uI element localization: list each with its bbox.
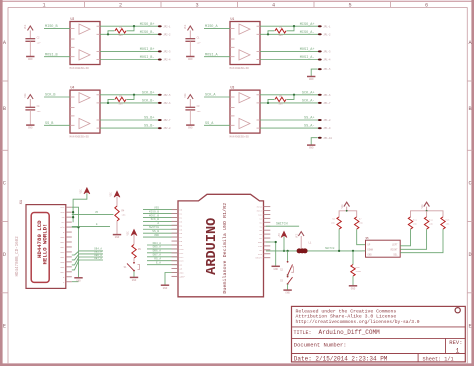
title row bbox=[294, 329, 381, 336]
wire net MISO_A bbox=[204, 25, 230, 29]
svg-text:SCK_A-: SCK_A- bbox=[302, 100, 315, 104]
wire net SWITCH bbox=[143, 226, 178, 229]
pin JP2-6 bbox=[158, 102, 171, 105]
svg-text:SCK: SCK bbox=[258, 213, 263, 216]
svg-text:SS_B: SS_B bbox=[45, 122, 53, 126]
svg-text:GND: GND bbox=[285, 292, 290, 295]
wire net MISO_B bbox=[143, 210, 178, 213]
svg-text:DB7_A: DB7_A bbox=[153, 254, 162, 257]
resistor R7 10K bbox=[355, 217, 366, 245]
wire GND bus bbox=[72, 207, 79, 277]
wire net MOSI_B+ bbox=[100, 48, 160, 52]
svg-text:MISO_A+: MISO_A+ bbox=[300, 23, 315, 27]
svg-text:VCC: VCC bbox=[341, 204, 344, 209]
wire net MISO_B- bbox=[100, 31, 160, 35]
CC logo bbox=[455, 308, 460, 313]
op-amp U2 (MAX490ESD+SD) bbox=[70, 17, 101, 70]
svg-text:MAX490ESD+SD: MAX490ESD+SD bbox=[70, 136, 90, 139]
svg-text:GND: GND bbox=[351, 287, 356, 290]
capacitor C2 bbox=[25, 37, 41, 57]
pin JP2-2 bbox=[158, 33, 171, 36]
wire net VSS bbox=[143, 206, 178, 209]
svg-text:SS_B+: SS_B+ bbox=[144, 117, 155, 121]
op-amp U3 (MAX490ESD+SD) bbox=[230, 86, 261, 139]
node junction bbox=[352, 250, 354, 252]
wire net DB7_A bbox=[147, 254, 178, 257]
svg-text:MOSI: MOSI bbox=[257, 210, 263, 213]
svg-text:DOWN: DOWN bbox=[368, 249, 374, 252]
svg-text:VDD: VDD bbox=[154, 234, 159, 237]
resistor R1 100 bbox=[268, 26, 294, 37]
svg-text:10K: 10K bbox=[429, 223, 434, 226]
svg-text:SS_A-: SS_A- bbox=[304, 125, 315, 129]
svg-text:GND: GND bbox=[28, 127, 33, 130]
svg-text:DB5: DB5 bbox=[60, 261, 65, 264]
resistor R11 10K bbox=[400, 217, 417, 246]
wire net SS_A bbox=[204, 122, 230, 126]
svg-text:MOSI_B+: MOSI_B+ bbox=[140, 48, 155, 52]
svg-text:GND: GND bbox=[28, 58, 33, 61]
wire (GND pin) bbox=[311, 69, 317, 76]
wire VCC to LCD bbox=[73, 193, 87, 222]
svg-text:DB3: DB3 bbox=[60, 251, 65, 254]
wire net SCK_B+ bbox=[100, 91, 160, 95]
svg-text:DB2: DB2 bbox=[60, 246, 65, 249]
svg-text:SS_B: SS_B bbox=[152, 230, 159, 233]
svg-text:SWITCH: SWITCH bbox=[149, 226, 159, 229]
power VCC (nav right) bbox=[421, 202, 430, 211]
svg-text:Released under the Creative Co: Released under the Creative Commons bbox=[296, 308, 397, 314]
wire net SCK_B bbox=[44, 94, 70, 98]
svg-text:B: B bbox=[468, 106, 471, 112]
svg-text:1uF: 1uF bbox=[197, 41, 202, 44]
svg-text:JP1-5: JP1-5 bbox=[323, 68, 331, 71]
ground bbox=[113, 235, 121, 240]
pin JP1-9 bbox=[318, 127, 331, 130]
wire net MOSI_B bbox=[44, 53, 70, 57]
svg-text:10K: 10K bbox=[413, 223, 418, 226]
node junction bbox=[267, 102, 269, 104]
node junction bbox=[283, 250, 285, 252]
power VCC (nav left) bbox=[341, 202, 350, 211]
svg-text:3V3: 3V3 bbox=[258, 253, 263, 256]
wire net SWITCH bbox=[266, 221, 299, 226]
wire net MISO_A+ bbox=[260, 23, 320, 27]
inductor L1 ferrite bead bbox=[297, 242, 312, 254]
resistor R6 10K bbox=[331, 217, 341, 251]
resistor R2 100 bbox=[108, 26, 134, 37]
svg-text:VDD: VDD bbox=[60, 211, 65, 214]
svg-text:U3: U3 bbox=[231, 86, 235, 90]
svg-text:GND: GND bbox=[163, 287, 168, 290]
svg-text:SWITCH: SWITCH bbox=[325, 247, 335, 250]
wire net E_A bbox=[147, 261, 178, 264]
wire net MOSI_B bbox=[143, 214, 178, 217]
wire to switch S2 bbox=[287, 251, 289, 261]
ground bbox=[186, 57, 194, 62]
svg-text:JP1-10: JP1-10 bbox=[323, 137, 332, 140]
power VCC (S1 chain) bbox=[127, 229, 138, 244]
svg-text:GND: GND bbox=[368, 254, 373, 257]
svg-text:DB0: DB0 bbox=[60, 236, 65, 239]
svg-text:GND: GND bbox=[273, 268, 278, 271]
svg-text:SCK_A: SCK_A bbox=[205, 94, 216, 98]
pin JP2-1 bbox=[158, 25, 171, 28]
svg-text:1uF: 1uF bbox=[37, 110, 42, 113]
wire net VO bbox=[72, 211, 114, 214]
svg-text:TITLE:: TITLE: bbox=[294, 330, 312, 336]
svg-text:HELLO WORLD!: HELLO WORLD! bbox=[41, 224, 48, 265]
power VCC (U2 supply) bbox=[24, 24, 33, 38]
svg-text:X1: X1 bbox=[20, 200, 24, 204]
wire net SS_B bbox=[44, 122, 70, 126]
svg-text:100: 100 bbox=[118, 34, 123, 37]
svg-text:AREF: AREF bbox=[180, 275, 186, 278]
op-amp U4 (MAX490ESD+SD) bbox=[70, 86, 101, 139]
wire S3 to ground bbox=[287, 284, 289, 290]
svg-text:MISO_B: MISO_B bbox=[45, 25, 58, 29]
svg-text:MISO_A: MISO_A bbox=[205, 25, 219, 29]
svg-text:DB1: DB1 bbox=[60, 241, 65, 244]
svg-text:B: B bbox=[3, 106, 6, 112]
pin JP1-7 bbox=[318, 102, 331, 105]
svg-text:JP2-5: JP2-5 bbox=[163, 94, 171, 97]
svg-text:R12: R12 bbox=[429, 219, 434, 222]
svg-text:1uF: 1uF bbox=[37, 41, 42, 44]
svg-text:1: 1 bbox=[456, 348, 460, 355]
svg-text:4: 4 bbox=[272, 3, 275, 9]
svg-text:E: E bbox=[468, 324, 471, 330]
resistor R10 470R bbox=[351, 251, 362, 286]
pin JP1-10 bbox=[318, 137, 333, 140]
svg-text:JP1-4: JP1-4 bbox=[323, 59, 331, 62]
wire net SCK_B- bbox=[100, 100, 160, 104]
node junction bbox=[286, 250, 288, 252]
ground bbox=[186, 125, 194, 130]
svg-text:VCC: VCC bbox=[184, 24, 187, 29]
IC ARDUINO board (Duemilanove/Decimila/UNO) bbox=[172, 194, 271, 296]
svg-text:JP1-9: JP1-9 bbox=[323, 127, 331, 130]
op-amp U1 (MAX490ESD+SD) bbox=[230, 17, 261, 70]
svg-text:6: 6 bbox=[425, 3, 428, 9]
svg-text:1: 1 bbox=[42, 3, 45, 9]
wire net RS_A bbox=[147, 258, 178, 261]
svg-text:U4: U4 bbox=[71, 86, 75, 90]
wire net DB5_A bbox=[147, 246, 178, 249]
svg-text:JP1-7: JP1-7 bbox=[323, 102, 331, 105]
svg-text:http://creativecommons.org/lic: http://creativecommons.org/licenses/by-s… bbox=[296, 319, 420, 325]
power VCC (LCD) bbox=[80, 188, 90, 194]
resistor R4 trimmer 10K bbox=[115, 206, 126, 234]
svg-text:DB7: DB7 bbox=[60, 271, 65, 274]
power VCC (U4 supply) bbox=[24, 93, 33, 107]
svg-text:E_A: E_A bbox=[156, 261, 161, 264]
svg-text:JP1-1: JP1-1 bbox=[323, 25, 331, 28]
wire net MOSI_A bbox=[204, 53, 230, 57]
resistor R5 100 bbox=[268, 95, 294, 106]
svg-text:VCC: VCC bbox=[24, 93, 27, 98]
svg-text:LEFT: LEFT bbox=[392, 244, 398, 247]
svg-text:RS_A: RS_A bbox=[154, 258, 161, 261]
power VCC (U1 supply) bbox=[184, 24, 193, 38]
ground bbox=[161, 285, 169, 290]
svg-text:RESET: RESET bbox=[255, 257, 262, 260]
svg-text:470R: 470R bbox=[356, 270, 362, 273]
svg-text:MAX490ESD+SD: MAX490ESD+SD bbox=[230, 67, 250, 70]
svg-text:VCC: VCC bbox=[80, 189, 83, 194]
wire net SS_B- bbox=[100, 125, 160, 129]
power +5V arrow bbox=[278, 231, 287, 251]
node junction bbox=[133, 25, 135, 27]
power VCC (R4) bbox=[110, 191, 121, 207]
svg-text:MAX490ESD+SD: MAX490ESD+SD bbox=[70, 67, 90, 70]
svg-text:MOSI_B: MOSI_B bbox=[149, 214, 159, 217]
wire pullup tee bbox=[339, 211, 357, 217]
svg-text:GND: GND bbox=[188, 127, 193, 130]
wire net MOSI_B- bbox=[100, 56, 160, 60]
pin JP2-3 bbox=[158, 50, 171, 53]
svg-text:MOSI_B: MOSI_B bbox=[45, 53, 58, 57]
svg-text:GND: GND bbox=[188, 58, 193, 61]
svg-text:+5V: +5V bbox=[278, 233, 281, 238]
svg-text:SCK_B+: SCK_B+ bbox=[142, 91, 155, 95]
svg-text:MISO_B-: MISO_B- bbox=[140, 31, 155, 35]
svg-text:MOSI_B-: MOSI_B- bbox=[140, 56, 155, 60]
node junction bbox=[133, 94, 135, 96]
node junction bbox=[267, 33, 269, 35]
frame row letters bbox=[3, 40, 473, 330]
node junction bbox=[293, 25, 295, 27]
wire net SCK_A- bbox=[260, 100, 320, 104]
pin JP1-1 bbox=[318, 25, 331, 28]
svg-text:MAX490ESD+SD: MAX490ESD+SD bbox=[230, 136, 250, 139]
svg-text:MOSI_A+: MOSI_A+ bbox=[300, 48, 315, 52]
svg-text:D12: D12 bbox=[180, 256, 185, 259]
ground bbox=[26, 57, 34, 62]
svg-text:JP2-2: JP2-2 bbox=[163, 33, 171, 36]
capacitor C1 bbox=[185, 37, 201, 57]
svg-text:2: 2 bbox=[119, 3, 122, 9]
svg-text:GND: GND bbox=[309, 78, 314, 81]
node junction bbox=[346, 210, 348, 212]
svg-text:VCC: VCC bbox=[184, 93, 187, 98]
resistor R9 bbox=[132, 245, 142, 262]
pin JP2-8 bbox=[158, 127, 171, 130]
switch S5 5-way nav bbox=[366, 237, 401, 257]
svg-text:JP2-8: JP2-8 bbox=[163, 127, 171, 130]
ground bbox=[272, 266, 280, 271]
wire (GND pin) bbox=[311, 138, 317, 145]
svg-text:D10: D10 bbox=[180, 248, 185, 251]
svg-text:VSS: VSS bbox=[60, 206, 65, 209]
svg-text:SCK_B-: SCK_B- bbox=[142, 100, 155, 104]
svg-text:S5: S5 bbox=[366, 237, 370, 240]
wire net DB7_A bbox=[72, 257, 103, 270]
ground bbox=[349, 286, 357, 291]
wire net SCK_B bbox=[143, 218, 178, 221]
wire R/W to GND bus bbox=[72, 226, 79, 228]
node junction bbox=[426, 210, 428, 212]
wire net SS_A- bbox=[260, 125, 320, 129]
pin JP1-5 bbox=[318, 68, 331, 71]
node junction bbox=[275, 241, 277, 243]
node junction bbox=[72, 211, 74, 213]
svg-text:VO: VO bbox=[95, 211, 99, 214]
svg-text:ARDUINO: ARDUINO bbox=[205, 218, 220, 275]
wire net DB4_A bbox=[147, 242, 178, 245]
pin JP1-4 bbox=[318, 59, 331, 62]
svg-text:Document Number:: Document Number: bbox=[294, 341, 347, 348]
node junction bbox=[77, 226, 79, 228]
svg-text:10K: 10K bbox=[122, 214, 127, 217]
svg-text:MISO: MISO bbox=[257, 206, 263, 209]
svg-text:5: 5 bbox=[348, 3, 351, 9]
svg-text:HD44780B_CD-1602: HD44780B_CD-1602 bbox=[16, 236, 20, 277]
capacitor C3 bbox=[185, 105, 201, 125]
svg-text:JP1-8: JP1-8 bbox=[323, 119, 331, 122]
document row bbox=[294, 339, 463, 354]
svg-text:10K: 10K bbox=[331, 222, 336, 225]
wire bead to S5 bbox=[362, 250, 366, 252]
svg-text:3: 3 bbox=[195, 3, 198, 9]
pin JP2-5 bbox=[158, 94, 171, 97]
wire net DB4_A bbox=[72, 248, 103, 255]
ground bbox=[307, 145, 315, 150]
frame column numbers bbox=[42, 3, 428, 9]
svg-text:REV:: REV: bbox=[449, 339, 462, 346]
svg-text:JP1-3: JP1-3 bbox=[323, 51, 331, 54]
switch S2 RESET bbox=[280, 261, 293, 276]
svg-text:DB7_A: DB7_A bbox=[94, 257, 102, 260]
svg-text:SCK_B: SCK_B bbox=[151, 218, 160, 221]
switch S3 bbox=[280, 276, 292, 285]
date row bbox=[294, 356, 454, 363]
svg-text:GND: GND bbox=[309, 147, 314, 150]
svg-text:100: 100 bbox=[278, 34, 283, 37]
svg-text:D: D bbox=[468, 252, 471, 258]
ground bbox=[74, 278, 82, 283]
svg-text:SCK_A+: SCK_A+ bbox=[302, 91, 315, 95]
wire net MISO_A- bbox=[260, 31, 320, 35]
wire net E bbox=[72, 223, 110, 226]
resistor R13 10K bbox=[400, 217, 450, 253]
svg-text:Sheet: 1/1: Sheet: 1/1 bbox=[423, 357, 454, 363]
svg-text:U2: U2 bbox=[71, 17, 75, 21]
svg-text:GND: GND bbox=[76, 279, 81, 282]
svg-text:SS_A: SS_A bbox=[205, 122, 214, 126]
switch S1 bbox=[124, 262, 140, 277]
wire pullup tee right bbox=[411, 211, 444, 217]
svg-text:VCC: VCC bbox=[421, 204, 424, 209]
wire S2-S3 bbox=[287, 275, 289, 277]
wire net VDD bbox=[143, 234, 178, 237]
svg-text:SS_A+: SS_A+ bbox=[304, 117, 315, 121]
connector X1 HD44780 LCD module bbox=[16, 200, 72, 288]
svg-text:MOSI_A: MOSI_A bbox=[205, 53, 219, 57]
wire net SCK_A+ bbox=[260, 91, 320, 95]
svg-text:C: C bbox=[3, 181, 6, 187]
svg-text:GND: GND bbox=[132, 279, 137, 282]
wire net A bbox=[143, 222, 178, 225]
svg-text:Duemilanove Decimila UNO R1: Duemilanove Decimila UNO R1/R2 bbox=[222, 203, 228, 294]
node junction bbox=[293, 94, 295, 96]
node junction bbox=[107, 33, 109, 35]
wire net MOSI_A+ bbox=[260, 48, 320, 52]
svg-text:VSS: VSS bbox=[154, 206, 159, 209]
svg-text:10K: 10K bbox=[359, 222, 364, 225]
svg-text:D11: D11 bbox=[180, 252, 185, 255]
svg-text:DB4_A: DB4_A bbox=[153, 242, 162, 245]
svg-text:100: 100 bbox=[118, 102, 123, 105]
svg-text:GND: GND bbox=[115, 236, 120, 239]
svg-text:VCC: VCC bbox=[127, 231, 130, 236]
svg-text:JP2-7: JP2-7 bbox=[163, 119, 171, 122]
resistor R12 10K bbox=[400, 217, 433, 249]
svg-text:1uF: 1uF bbox=[197, 110, 202, 113]
svg-text:VCC: VCC bbox=[110, 192, 113, 197]
wire 5V feed bbox=[266, 250, 362, 252]
svg-text:DB6_A: DB6_A bbox=[153, 250, 162, 253]
power VCC (U3 supply) bbox=[184, 93, 193, 107]
svg-text:DB5_A: DB5_A bbox=[153, 246, 162, 249]
wire net SS_B+ bbox=[100, 117, 160, 121]
svg-text:JP2-3: JP2-3 bbox=[163, 51, 171, 54]
svg-text:SWITCH: SWITCH bbox=[276, 221, 288, 225]
svg-text:R10: R10 bbox=[356, 266, 361, 269]
wire net DB5_A bbox=[72, 251, 103, 260]
wire K to GND bus bbox=[72, 281, 79, 283]
title block license text bbox=[296, 308, 420, 324]
capacitor C4 bbox=[25, 105, 41, 125]
svg-text:JP2-1: JP2-1 bbox=[163, 25, 171, 28]
wire Arduino GND bbox=[165, 273, 178, 285]
ground bbox=[307, 77, 315, 82]
svg-text:SS_B-: SS_B- bbox=[144, 125, 155, 129]
node junction bbox=[107, 102, 109, 104]
pin JP1-3 bbox=[318, 50, 331, 53]
wire net SS_B bbox=[143, 230, 178, 233]
pin JP2-7 bbox=[158, 119, 171, 122]
wire stub bbox=[426, 211, 428, 217]
svg-text:DB4: DB4 bbox=[60, 256, 65, 259]
ground bbox=[130, 277, 138, 282]
svg-text:VCC: VCC bbox=[24, 24, 27, 29]
svg-text:D13: D13 bbox=[180, 260, 185, 263]
wire net SS_A+ bbox=[260, 117, 320, 121]
svg-text:JP2-4: JP2-4 bbox=[163, 59, 171, 62]
node junction bbox=[338, 250, 340, 252]
svg-text:SCK_B: SCK_B bbox=[45, 94, 56, 98]
svg-text:GND: GND bbox=[258, 241, 263, 244]
svg-text:C: C bbox=[468, 181, 471, 187]
svg-text:U1: U1 bbox=[231, 17, 235, 21]
svg-text:Date: 2/15/2014 2:23:34 PM: Date: 2/15/2014 2:23:34 PM bbox=[294, 356, 388, 363]
wire net DB6_A bbox=[147, 250, 178, 253]
svg-text:Attribution Share-Alike 3.0 Li: Attribution Share-Alike 3.0 License bbox=[296, 314, 397, 320]
pin JP1-6 bbox=[318, 94, 331, 97]
svg-text:DB6: DB6 bbox=[60, 266, 65, 269]
pin JP2-4 bbox=[158, 59, 171, 62]
svg-text:RIGHT: RIGHT bbox=[391, 249, 399, 252]
svg-text:VCC: VCC bbox=[295, 233, 298, 238]
node junction bbox=[72, 216, 74, 218]
svg-text:MISO_A-: MISO_A- bbox=[300, 31, 315, 35]
title block bbox=[292, 306, 466, 362]
svg-text:MOSI_A-: MOSI_A- bbox=[300, 56, 315, 60]
svg-text:10K: 10K bbox=[445, 223, 450, 226]
pin JP1-2 bbox=[318, 33, 331, 36]
wire net DB6_A bbox=[72, 254, 103, 265]
